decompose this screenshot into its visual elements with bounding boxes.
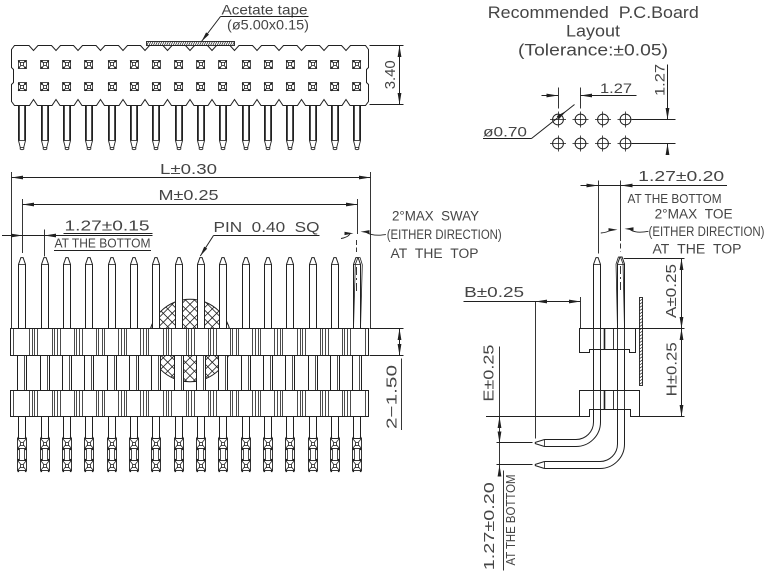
svg-text:(EITHER DIRECTION): (EITHER DIRECTION): [387, 227, 502, 242]
svg-text:ø0.70: ø0.70: [483, 123, 527, 139]
svg-text:2°MAX SWAY: 2°MAX SWAY: [392, 209, 479, 224]
svg-text:PIN 0.40 SQ: PIN 0.40 SQ: [214, 220, 320, 236]
svg-text:AT THE TOP: AT THE TOP: [391, 246, 479, 261]
svg-text:(EITHER DIRECTION): (EITHER DIRECTION): [649, 224, 765, 239]
svg-text:H±0.25: H±0.25: [665, 342, 681, 396]
svg-text:AT THE BOTTOM: AT THE BOTTOM: [504, 475, 518, 566]
svg-text:Recommended P.C.Board: Recommended P.C.Board: [488, 4, 699, 22]
svg-text:2°MAX TOE: 2°MAX TOE: [655, 207, 733, 222]
svg-text:AT THE BOTTOM: AT THE BOTTOM: [55, 236, 151, 250]
svg-text:1.27±0.20: 1.27±0.20: [482, 482, 498, 570]
svg-text:1.27: 1.27: [600, 80, 632, 96]
svg-text:(ø5.00x0.15): (ø5.00x0.15): [227, 18, 309, 33]
svg-text:3.40: 3.40: [382, 60, 399, 89]
svg-text:AT THE BOTTOM: AT THE BOTTOM: [628, 192, 722, 206]
svg-text:1.27±0.20: 1.27±0.20: [638, 169, 724, 185]
svg-text:M±0.25: M±0.25: [159, 188, 219, 204]
svg-text:L±0.30: L±0.30: [160, 162, 217, 178]
svg-text:Acetate tape: Acetate tape: [222, 2, 308, 17]
svg-text:1.27: 1.27: [652, 64, 668, 96]
svg-text:B±0.25: B±0.25: [464, 285, 524, 301]
svg-text:(Tolerance:±0.05): (Tolerance:±0.05): [518, 42, 668, 60]
svg-text:A±0.25: A±0.25: [664, 264, 680, 318]
svg-text:1.27±0.15: 1.27±0.15: [65, 218, 150, 234]
svg-text:E±0.25: E±0.25: [482, 345, 498, 402]
svg-text:2−1.50: 2−1.50: [385, 365, 401, 429]
svg-text:AT THE TOP: AT THE TOP: [653, 241, 742, 256]
svg-text:Layout: Layout: [566, 22, 620, 40]
